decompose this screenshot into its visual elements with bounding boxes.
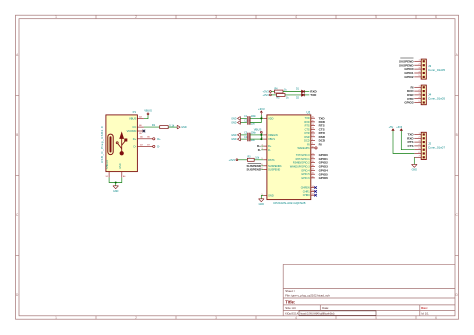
svg-text:10u: 10u: [251, 139, 256, 142]
svg-text:2: 2: [135, 15, 137, 19]
wire J2 pin5 to +3V3: [401, 130, 414, 150]
wire +3V3 to VDD pin: [261, 115, 263, 119]
pin CHREN 14 of U1: [311, 187, 315, 189]
ground symbol at C3: [240, 134, 247, 136]
pin VCONN B5 of P1 with no-connect: [137, 130, 144, 132]
svg-text:3: 3: [215, 15, 217, 19]
svg-text:+3V3: +3V3: [263, 90, 270, 94]
svg-text:2: 2: [135, 316, 137, 320]
svg-text:+5V: +5V: [389, 126, 394, 129]
USB-C plug connector P1 body: [106, 115, 137, 172]
svg-text:VBUS: VBUS: [254, 127, 262, 131]
pin SHIELD S1 of P1: [108, 172, 110, 178]
svg-text:GPIO.6: GPIO.6: [301, 177, 310, 180]
wire C1 right: [250, 117, 261, 119]
pin DSR 27 of U1: [311, 136, 315, 138]
svg-text:GND: GND: [231, 134, 237, 137]
svg-text:WAKEUPb: WAKEUPb: [297, 147, 310, 150]
pin RI 2 of U1: [311, 143, 315, 145]
svg-text:5: 5: [375, 15, 377, 19]
pin 3 of J2: [423, 141, 425, 143]
connector J3 Conn_01x05 body: [421, 59, 426, 79]
svg-text:RI: RI: [319, 142, 322, 146]
svg-text:4: 4: [295, 15, 297, 19]
power +5V at J2: [392, 129, 394, 131]
svg-text:Conn_01x07: Conn_01x07: [428, 145, 445, 149]
svg-text:RS485/GPIO.2: RS485/GPIO.2: [293, 162, 310, 165]
wire LED D1 to RXD label: [304, 91, 309, 93]
svg-text:Title:: Title:: [285, 300, 295, 305]
svg-text:6: 6: [435, 15, 437, 19]
pin VDD 6 of U1: [263, 117, 267, 119]
wire VREGIN node: [261, 135, 263, 139]
pin RXT/GPIO.1 20 of U1: [311, 158, 315, 160]
ground symbol at C4: [240, 138, 247, 140]
wire R5 to LED D2: [285, 94, 302, 96]
svg-text:RTS: RTS: [305, 125, 310, 128]
svg-text:File: type-c_plug_cp2102.kicad: File: type-c_plug_cp2102.kicad_sch: [285, 294, 330, 298]
svg-text:+3V3: +3V3: [229, 158, 236, 162]
svg-text:VDD: VDD: [268, 117, 273, 120]
pin CTS 23 of U1: [311, 128, 315, 130]
wire SUSPENDb to U1: [261, 165, 263, 167]
svg-text:GND: GND: [113, 190, 119, 193]
svg-text:VBUS: VBUS: [129, 117, 137, 121]
svg-text:GPIO2: GPIO2: [404, 75, 414, 79]
pin WAKEUPb 10 of U1: [311, 147, 315, 149]
svg-text:CTS: CTS: [408, 144, 414, 148]
svg-text:VBUS: VBUS: [144, 109, 152, 113]
svg-text:+3V3: +3V3: [396, 126, 403, 129]
svg-text:R1: R1: [152, 123, 156, 127]
pin D+ 4 of U1: [263, 145, 267, 147]
svg-text:P1: P1: [133, 110, 137, 114]
pin TXD 26 of U1: [311, 117, 315, 119]
svg-text:+3V3: +3V3: [263, 93, 270, 97]
svg-text:Conn_01x05: Conn_01x05: [428, 68, 445, 72]
pin 6 of J2: [423, 152, 425, 154]
svg-text:DTR: DTR: [304, 132, 309, 135]
svg-text:VCONN: VCONN: [127, 129, 137, 133]
svg-text:D-: D-: [133, 144, 136, 148]
ground symbol below USB plug: [113, 186, 119, 189]
svg-text:GND: GND: [412, 169, 418, 172]
svg-text:GND: GND: [119, 163, 122, 169]
svg-text:1: 1: [55, 316, 57, 320]
wire R4 to LED D1: [283, 91, 302, 93]
power +3V3 at U1 VDD: [260, 111, 262, 115]
pin CC A5 of P1: [137, 126, 144, 128]
svg-text:TXD: TXD: [305, 117, 310, 120]
svg-text:TXT/GPIO.0: TXT/GPIO.0: [296, 154, 310, 157]
ground symbol below U1: [259, 199, 265, 202]
op IC U1 CP2102N body: [267, 115, 311, 200]
svg-text:GND: GND: [268, 195, 274, 198]
pin RSTb 9 of U1: [263, 159, 267, 161]
svg-text:USB_C_Plug_USB2.0: USB_C_Plug_USB2.0: [100, 126, 104, 163]
pin CHR1 13 of U1: [311, 190, 315, 192]
svg-text:GND: GND: [231, 117, 237, 120]
pin DCD 1 of U1: [311, 140, 315, 142]
svg-text:CC: CC: [132, 125, 136, 129]
svg-text:SUSPENDb: SUSPENDb: [268, 165, 282, 168]
pin 2 of J2: [423, 137, 425, 139]
pin SUSPENDb 11 of U1: [263, 165, 267, 167]
pin VBUS A4 of P1: [137, 118, 144, 120]
pin DTR 28 of U1: [311, 132, 315, 134]
svg-text:RXT/GPIO.1: RXT/GPIO.1: [296, 158, 311, 161]
pin 3 of J3: [423, 68, 425, 70]
svg-text:VBUS: VBUS: [268, 138, 275, 141]
svg-text:U1: U1: [307, 111, 311, 115]
svg-text:D-: D-: [258, 148, 261, 152]
junction VBUS pin node: [260, 138, 262, 140]
connector J2 Conn_01x07 body: [421, 132, 426, 159]
svg-text:B: B: [16, 133, 18, 137]
pin D+ A6 B6 of P1 unconnected: [137, 138, 152, 140]
pin WAKEUP/GPIO.3 18 of U1: [311, 166, 315, 168]
svg-text:WAKEUP/GPIO.3: WAKEUP/GPIO.3: [290, 166, 310, 169]
svg-text:GND: GND: [231, 138, 237, 141]
wire to resistor R5: [271, 94, 276, 96]
svg-text:Date:: Date:: [322, 306, 329, 310]
svg-text:VREGIN: VREGIN: [268, 134, 278, 137]
svg-text:DSR: DSR: [304, 136, 309, 139]
power VBUS at U1 VREGIN: [260, 131, 262, 133]
wire LED D2 to TXD label: [304, 94, 309, 96]
pin 1 of J4: [423, 86, 425, 88]
svg-text:SUSPEND: SUSPEND: [268, 169, 280, 172]
power symbol VBUS at USB plug: [147, 113, 149, 115]
svg-text:D+: D+: [268, 145, 272, 148]
USB-C receptacle lozenge glyph: [108, 134, 113, 155]
pin RXD 25 of U1: [311, 121, 315, 123]
svg-text:CP2102N-A02-GQFN28: CP2102N-A02-GQFN28: [273, 201, 306, 205]
svg-text:D+: D+: [133, 137, 137, 141]
svg-text:CHR0: CHR0: [303, 194, 310, 197]
svg-text:KiCad E.D.A.: KiCad E.D.A.: [285, 312, 299, 315]
USB trident logo: [116, 133, 127, 155]
svg-text:D-: D-: [157, 144, 160, 148]
ground symbol below J2: [412, 164, 418, 167]
pin SUSPEND 12 of U1: [263, 169, 267, 171]
pin 5 of J2: [423, 149, 425, 151]
wire C3 right: [250, 134, 261, 136]
pin RTS 24 of U1: [311, 125, 315, 127]
pin TXT/GPIO.0 21 of U1: [311, 154, 315, 156]
junction VREGIN node: [260, 134, 262, 136]
pin GND A1 B1 of P1: [121, 172, 123, 178]
svg-text:RSTb: RSTb: [268, 159, 275, 162]
wire C4 right: [250, 138, 263, 140]
svg-text:100n: 100n: [251, 131, 257, 134]
svg-text:GPIO.5: GPIO.5: [301, 173, 310, 176]
pin GND 5 of U1: [263, 195, 267, 197]
svg-text:DCD: DCD: [304, 140, 310, 143]
pin VBUS 8 of U1: [263, 138, 267, 140]
pin 4 of J3: [423, 72, 425, 74]
svg-text:GND: GND: [231, 122, 237, 125]
pin D- A7 B7 of P1 unconnected: [137, 145, 152, 147]
pin 4 of J4: [423, 98, 425, 100]
svg-text:CHR1: CHR1: [303, 190, 310, 193]
svg-text:Rev:: Rev:: [421, 306, 428, 310]
svg-text:B: B: [456, 133, 458, 137]
pin 1 of J2: [423, 133, 425, 135]
pin VREGIN 7 of U1: [263, 134, 267, 136]
svg-text:GND: GND: [181, 126, 187, 129]
pin D- 3 of U1: [263, 149, 267, 151]
svg-text:Id: 1/1: Id: 1/1: [421, 311, 429, 315]
svg-text:TXD: TXD: [310, 93, 317, 97]
pin 2 of J4: [423, 90, 425, 92]
wire J2 pin6 to +5V: [393, 130, 414, 153]
connector J4 Conn_01x05 body: [421, 85, 426, 105]
power +3V3 at J2: [400, 129, 402, 131]
wire USB shield and gnd to ground: [109, 177, 122, 182]
svg-text:Sheet: /: Sheet: /: [285, 289, 295, 293]
svg-text:Conn_01x05: Conn_01x05: [428, 96, 445, 100]
svg-text:RI: RI: [307, 143, 310, 146]
ground symbol at C2: [240, 122, 247, 124]
svg-text:GPIO3: GPIO3: [404, 101, 414, 105]
svg-text:3: 3: [215, 316, 217, 320]
svg-text:D+: D+: [157, 137, 161, 141]
svg-text:1: 1: [55, 15, 57, 19]
svg-text:5: 5: [375, 316, 377, 320]
svg-text:kicad (5.99.0-8645-g886cafe3bd: kicad (5.99.0-8645-g886cafe3bd): [301, 313, 335, 315]
svg-text:+3V3: +3V3: [258, 107, 265, 111]
pin GPIO.4 17 of U1: [311, 169, 315, 171]
svg-text:GPIO.4: GPIO.4: [301, 169, 310, 172]
pin 1 of J3: [423, 60, 425, 62]
wire J2 pin7 to ground: [413, 157, 415, 164]
svg-text:10u: 10u: [251, 123, 256, 126]
wire R3 to RSTb pin: [254, 159, 263, 161]
pin GPIO.5 16 of U1: [311, 173, 315, 175]
wire VBUS pin to power symbol: [144, 115, 148, 119]
junction at USB ground node: [115, 182, 117, 184]
junction VDD node: [260, 117, 262, 119]
wire R1 to GND: [168, 126, 177, 128]
wire +3V3 to R3: [238, 159, 248, 161]
ground symbol right of R1: [177, 125, 180, 129]
pin 4 of J2: [423, 145, 425, 147]
pin 7 of J2: [423, 156, 425, 158]
svg-text:4: 4: [295, 316, 297, 320]
pin 3 of J4: [423, 94, 425, 96]
pin 5 of J3: [423, 76, 425, 78]
pin RS485/GPIO.2 19 of U1: [311, 162, 315, 164]
wire SUSPEND to U1: [261, 169, 263, 171]
svg-text:Size: A4: Size: A4: [285, 306, 296, 310]
wire CC to resistor R1: [144, 126, 160, 128]
svg-text:CTS: CTS: [305, 128, 310, 131]
pin 2 of J3: [423, 64, 425, 66]
svg-text:CHREN: CHREN: [301, 187, 310, 190]
pin GPIO.6 15 of U1: [311, 177, 315, 179]
pin CHR0 12 of U1: [311, 194, 315, 196]
svg-text:SUSPEND: SUSPEND: [246, 168, 261, 172]
svg-text:SHIELD: SHIELD: [106, 160, 109, 169]
svg-text:GPIO6: GPIO6: [319, 176, 329, 180]
wire D+ to U1: [261, 145, 263, 147]
wire U1 GND to ground: [261, 196, 263, 199]
svg-text:6: 6: [435, 316, 437, 320]
svg-text:GND: GND: [259, 203, 265, 206]
wire C2 right: [250, 118, 261, 122]
svg-text:RXD: RXD: [304, 121, 309, 124]
wire to resistor R4: [271, 91, 274, 93]
wire D- to U1: [261, 149, 263, 151]
svg-text:100n: 100n: [251, 115, 257, 118]
ground symbol at C1: [240, 117, 247, 119]
pin 5 of J4: [423, 101, 425, 103]
svg-text:D-: D-: [268, 149, 271, 152]
